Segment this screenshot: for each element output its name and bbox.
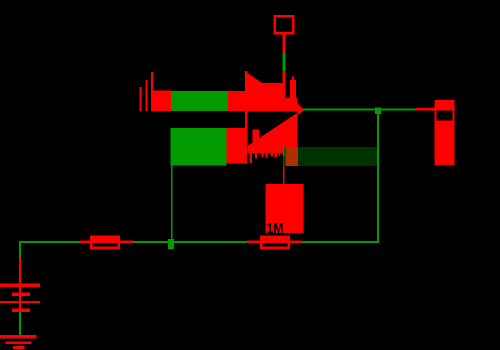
ground symbol bar 2 bbox=[5, 341, 31, 344]
wire green op-amp output bbox=[303, 109, 417, 111]
wire red resistor R1 right pin bbox=[120, 241, 133, 243]
label LM386 glyph M stem (red) bbox=[250, 153, 252, 163]
ground symbol bar 3 bbox=[13, 346, 25, 349]
microphone MK1 plate 1 bbox=[140, 87, 142, 111]
speaker LS1 body bbox=[435, 100, 455, 165]
battery BT1 inter-plate stub 2 bbox=[19, 296, 21, 301]
net highlight green (upper band) bbox=[171, 91, 228, 111]
battery BT1 inter-plate stub 3 bbox=[19, 303, 21, 308]
ground symbol bar 1 bbox=[0, 335, 37, 339]
label LM386 glyph gap (black) bbox=[247, 153, 250, 164]
power terminal square (VCC) bbox=[275, 16, 293, 33]
svg-text:1M: 1M bbox=[267, 220, 284, 237]
label LM386 glyph M tip bbox=[261, 153, 264, 158]
resistor R1 solid top band bbox=[90, 235, 120, 243]
op-amp U1 apex tip bbox=[297, 109, 303, 115]
op-amp U1 upper body block bbox=[245, 83, 283, 112]
wire green battery to ground bbox=[19, 312, 21, 335]
op-amp U1 pin 7 stub tip bbox=[292, 77, 294, 81]
battery BT1 inter-plate stub 1 bbox=[19, 287, 21, 293]
wire green vertical from output node to bottom rail bbox=[377, 114, 379, 243]
microphone MK1 plate 3 bbox=[151, 72, 153, 111]
wire green rail between R2 and vertical wire bbox=[302, 241, 379, 243]
microphone MK1 plate 2 bbox=[145, 80, 147, 111]
junction J2 output node bbox=[375, 108, 381, 115]
wire red VCC pin from square bbox=[282, 34, 285, 52]
net highlight green (lower band) bbox=[170, 128, 226, 165]
battery BT1 plate 1 long bbox=[0, 284, 40, 287]
op-amp U1 pin 5 red lead down bbox=[283, 167, 285, 184]
battery BT1 top pin red bbox=[19, 258, 21, 284]
resistor R2 solid top band bbox=[260, 235, 290, 243]
op-amp U1 left edge bar bbox=[245, 71, 248, 146]
wire green rail between R1 and junction J1 bbox=[133, 241, 247, 243]
wire green bottom rail left segment bbox=[19, 241, 80, 243]
wire green battery top corner vertical bbox=[19, 241, 21, 258]
label LM386 glyph 8 tip bbox=[278, 153, 280, 157]
resistor R3 body red (upper band right, to op-amp +input) bbox=[228, 91, 248, 111]
wire green VCC net bbox=[282, 52, 285, 71]
label LM386 glyph L stem wide (red) bbox=[242, 153, 247, 162]
wire red resistor R1 left pin bbox=[80, 241, 90, 243]
op-amp U1 pin 7 bypass stub bbox=[290, 80, 296, 112]
battery BT1 plate 4 short bbox=[12, 308, 30, 312]
label LM386 glyph M tip 2 bbox=[265, 153, 269, 159]
potentiometer RV1 body bbox=[266, 184, 304, 233]
op-amp U1 pin 2 stub (foot) bbox=[253, 130, 259, 146]
blended label remnant glyph 6 (brown) bbox=[285, 147, 297, 166]
wire red resistor R2 right pin bbox=[290, 241, 302, 243]
wire pin5 vertical dark lower segment bbox=[283, 156, 285, 167]
resistor R4 body red (lower band right, to op-amp -input) bbox=[226, 128, 247, 164]
op-amp U1 upper-left wedge bbox=[245, 71, 262, 83]
wire red speaker lead bbox=[416, 108, 435, 111]
op-amp U1 right upper block bbox=[285, 98, 297, 112]
label LM386 glyph 3 tip bbox=[270, 153, 274, 158]
resistor R1 box outline bbox=[91, 237, 119, 248]
op-amp U1 apex upper wedge bbox=[297, 103, 303, 109]
wire green pin5 vertical bbox=[283, 147, 285, 167]
label LM386 glyph mark 2 (red) bbox=[275, 153, 277, 158]
battery BT1 plate 2 short bbox=[12, 293, 30, 297]
wire green vertical from lower band to rail junction bbox=[171, 165, 173, 239]
speaker LS1 magnet window bbox=[437, 111, 453, 121]
wire red resistor R2 left pin bbox=[247, 241, 260, 243]
label LM386 glyph mark (red) bbox=[255, 153, 257, 159]
net dark green band (pin 5 feedback) bbox=[285, 147, 378, 166]
op-amp U1 lower body below diagonal bbox=[248, 109, 303, 153]
resistor R2 box outline bbox=[261, 237, 289, 248]
op-amp U1 pin 6 V+ (red) bbox=[282, 71, 285, 112]
battery BT1 plate 3 long thin bbox=[0, 301, 40, 303]
capacitor C1 body red (upper band left) bbox=[151, 90, 171, 111]
junction J1 on bottom rail bbox=[168, 239, 174, 249]
